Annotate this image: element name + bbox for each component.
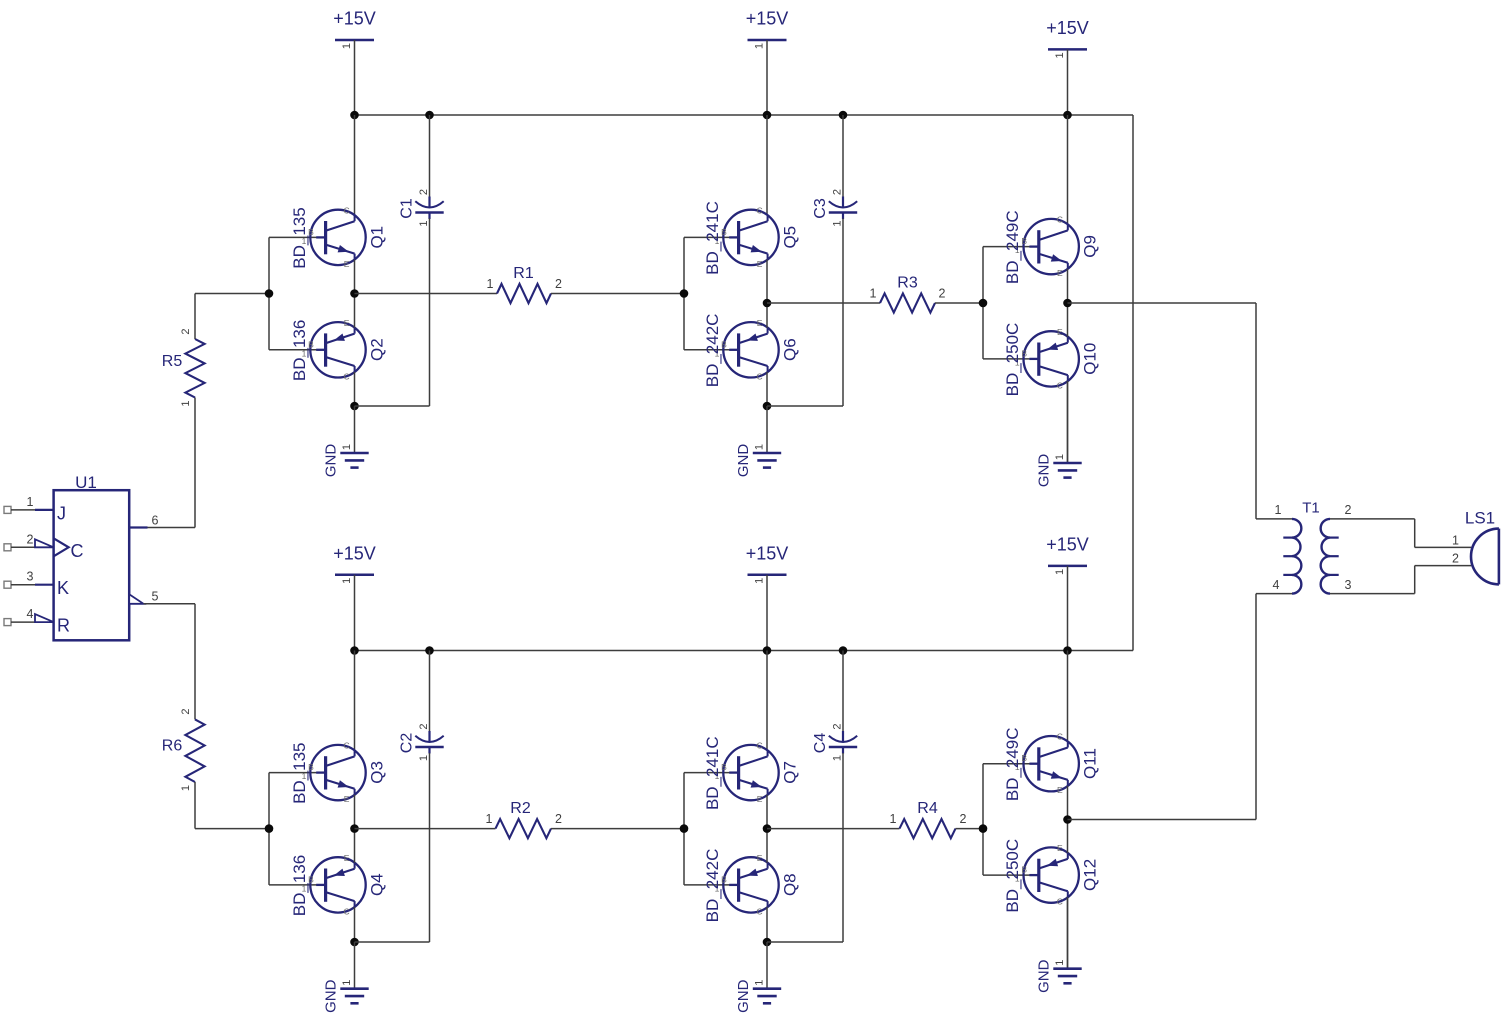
junction top rail stage1 <box>350 111 359 120</box>
wire stage2-bottom output to R4 <box>767 828 900 830</box>
wire emitter column stage3-bottom <box>1067 786 1069 897</box>
svg-text:2: 2 <box>832 723 844 729</box>
wire lower node to C1 <box>355 405 430 407</box>
svg-text:1: 1 <box>341 578 353 584</box>
svg-text:C: C <box>1057 215 1063 225</box>
svg-text:Q12: Q12 <box>1081 859 1100 891</box>
transistor Q10 <box>1003 323 1099 397</box>
wire Q10 collector to ground <box>1067 381 1069 463</box>
wire +15V bottom rail <box>355 650 1134 652</box>
transistor Q3 <box>290 741 387 805</box>
svg-text:Q1: Q1 <box>368 226 387 249</box>
svg-text:C: C <box>757 906 763 916</box>
svg-text:Q2: Q2 <box>368 338 387 361</box>
svg-text:Q4: Q4 <box>368 873 387 896</box>
svg-text:2: 2 <box>180 328 192 334</box>
power +15V stage1 bottom <box>333 543 376 650</box>
svg-text:1: 1 <box>27 495 34 509</box>
svg-text:BD_250C: BD_250C <box>1003 323 1022 397</box>
wire +15V to Q5 collector <box>766 115 768 215</box>
node output junction stage3-bottom <box>1063 815 1072 824</box>
svg-text:2: 2 <box>555 277 562 291</box>
svg-text:B: B <box>1021 753 1027 763</box>
svg-text:BD_249C: BD_249C <box>1003 727 1022 801</box>
svg-text:LS1: LS1 <box>1465 509 1495 528</box>
ground GND stage3 top <box>1036 381 1082 487</box>
svg-text:B: B <box>721 874 727 884</box>
svg-text:2: 2 <box>1345 503 1352 517</box>
svg-text:C: C <box>757 741 763 751</box>
svg-text:E: E <box>757 853 763 863</box>
svg-text:1: 1 <box>341 980 353 986</box>
svg-text:B: B <box>1021 236 1027 246</box>
svg-text:C: C <box>344 741 350 751</box>
wire T1 pin1 lead <box>1256 518 1292 520</box>
svg-text:C1: C1 <box>399 198 416 219</box>
svg-text:C2: C2 <box>399 733 416 754</box>
wire T1 pin4 lead <box>1256 593 1292 595</box>
svg-text:2: 2 <box>1452 552 1459 566</box>
wire stage3 output to T1 primary pin1 <box>1068 303 1257 519</box>
svg-text:E: E <box>757 259 763 269</box>
svg-text:2: 2 <box>418 723 430 729</box>
power +15V stage1 top <box>333 9 376 116</box>
svg-text:3: 3 <box>1345 578 1352 592</box>
svg-text:C3: C3 <box>812 198 829 219</box>
capacitor C2 <box>399 651 444 943</box>
wire emitter column stage1-top <box>354 260 356 372</box>
wire Q6 collector to lower node <box>766 372 768 406</box>
svg-text:Q5: Q5 <box>781 226 800 249</box>
svg-text:Q11: Q11 <box>1081 748 1100 779</box>
svg-text:R6: R6 <box>162 738 183 755</box>
power +15V stage3 bottom <box>1046 534 1089 650</box>
svg-text:1: 1 <box>486 812 493 826</box>
node output junction stage1-bottom <box>350 824 359 833</box>
resistor R4 <box>890 800 967 838</box>
svg-text:2: 2 <box>418 189 430 195</box>
node lower junction stage1-top <box>350 402 359 411</box>
wire +15V to Q11 collector <box>1067 651 1069 742</box>
svg-text:1: 1 <box>341 444 353 450</box>
svg-text:+15V: +15V <box>1046 18 1089 38</box>
node lower junction stage2-top <box>763 402 772 411</box>
node output junction stage2-bottom <box>763 824 772 833</box>
wire stage1 output to R1 <box>355 293 498 295</box>
wire stage2 output to R3 <box>767 302 880 304</box>
svg-text:C4: C4 <box>812 733 829 754</box>
svg-text:+15V: +15V <box>333 9 376 29</box>
svg-text:+15V: +15V <box>746 9 789 29</box>
wire emitter column stage1-bottom <box>354 795 356 907</box>
svg-text:BD_249C: BD_249C <box>1003 210 1022 284</box>
wire lower node to C4 <box>767 941 843 943</box>
svg-text:U1: U1 <box>75 473 97 492</box>
transformer T1 <box>1273 500 1352 594</box>
svg-text:E: E <box>1057 327 1063 337</box>
svg-text:+15V: +15V <box>333 543 376 563</box>
svg-text:1: 1 <box>832 220 844 226</box>
svg-text:2: 2 <box>27 532 34 546</box>
ground GND stage3 bottom <box>1036 897 1082 993</box>
wire T1 pin2 to LS1 pin1 <box>1330 519 1471 548</box>
svg-text:1: 1 <box>1275 503 1282 517</box>
svg-text:E: E <box>1057 268 1063 278</box>
svg-text:GND: GND <box>323 444 340 478</box>
transistor Q8 <box>703 849 800 923</box>
svg-text:C: C <box>1057 380 1063 390</box>
svg-text:B: B <box>308 227 314 237</box>
wire U1 pin 5 to R6 <box>144 604 196 720</box>
wire Q12 collector to ground <box>1067 897 1069 968</box>
node output junction stage2-top <box>763 299 772 308</box>
transistor Q5 <box>703 201 800 275</box>
capacitor C3 <box>812 115 857 406</box>
svg-text:2: 2 <box>939 286 946 300</box>
svg-text:4: 4 <box>27 607 34 621</box>
junction bottom rail stage2 <box>763 646 772 655</box>
svg-text:R1: R1 <box>513 265 534 282</box>
svg-text:GND: GND <box>1036 454 1053 488</box>
svg-text:1: 1 <box>180 400 192 406</box>
wire base link stage2-top <box>684 237 739 349</box>
transistor Q1 <box>290 205 387 269</box>
wire base link stage1-bottom <box>269 773 326 885</box>
svg-text:C: C <box>1057 897 1063 907</box>
ground GND stage1 top <box>323 406 369 477</box>
svg-text:R: R <box>57 616 70 636</box>
svg-text:1: 1 <box>754 578 766 584</box>
wire rail link right <box>1132 115 1134 651</box>
transistor Q2 <box>290 318 387 382</box>
svg-text:E: E <box>757 318 763 328</box>
svg-text:E: E <box>1057 785 1063 795</box>
svg-text:1: 1 <box>418 220 430 226</box>
svg-text:Q7: Q7 <box>781 761 800 784</box>
svg-text:1: 1 <box>487 277 494 291</box>
svg-text:Q6: Q6 <box>781 338 800 361</box>
capacitor C1 <box>399 115 444 406</box>
svg-text:+15V: +15V <box>1046 534 1089 554</box>
svg-text:R5: R5 <box>162 353 183 370</box>
svg-text:2: 2 <box>555 812 562 826</box>
svg-text:2: 2 <box>960 812 967 826</box>
svg-text:R2: R2 <box>510 800 531 817</box>
svg-text:1: 1 <box>754 980 766 986</box>
ground GND stage1 bottom <box>323 942 369 1013</box>
wire emitter column stage3-top <box>1067 269 1069 381</box>
resistor R6 <box>162 708 205 791</box>
svg-text:E: E <box>1057 843 1063 853</box>
svg-text:E: E <box>757 794 763 804</box>
wire lower node to C3 <box>767 405 843 407</box>
svg-text:K: K <box>57 578 69 598</box>
svg-text:R3: R3 <box>897 274 918 291</box>
node output junction stage3-top <box>1063 299 1072 308</box>
svg-text:BD_250C: BD_250C <box>1003 839 1022 913</box>
svg-text:C: C <box>344 205 350 215</box>
svg-text:E: E <box>344 318 350 328</box>
svg-text:C: C <box>757 205 763 215</box>
IC U1 JK flip-flop (pins 1 J, 2 C, 3 K, 4 R, outputs 6 and 5) <box>4 473 159 640</box>
wire base link stage3-bottom <box>983 764 1039 875</box>
node base junction stage1-bottom <box>265 824 274 833</box>
resistor R2 <box>486 800 563 838</box>
wire T1 pin3 to LS1 pin2 <box>1330 566 1471 594</box>
svg-text:1: 1 <box>832 755 844 761</box>
wire Q2 collector to lower node <box>354 372 356 406</box>
svg-text:BD_241C: BD_241C <box>703 736 722 810</box>
svg-text:+15V: +15V <box>746 543 789 563</box>
speaker LS1 <box>1452 509 1499 585</box>
svg-text:C: C <box>757 371 763 381</box>
svg-text:B: B <box>721 227 727 237</box>
junction bottom rail C4 <box>839 646 848 655</box>
svg-text:1: 1 <box>754 444 766 450</box>
svg-text:B: B <box>721 339 727 349</box>
ground GND stage2 top <box>735 406 781 477</box>
wire +15V to Q9 collector <box>1067 115 1069 224</box>
svg-text:1: 1 <box>1054 52 1066 58</box>
wire Q8 collector to lower node <box>766 907 768 942</box>
wire emitter column stage2-top <box>766 260 768 372</box>
capacitor C4 <box>812 651 857 943</box>
svg-text:GND: GND <box>735 444 752 478</box>
node lower junction stage1-bottom <box>350 938 359 947</box>
junction top rail C3 <box>839 111 848 120</box>
wire +15V to Q3 collector <box>354 651 356 751</box>
svg-text:6: 6 <box>152 514 159 528</box>
svg-text:1: 1 <box>870 286 877 300</box>
svg-text:1: 1 <box>1054 454 1066 460</box>
svg-text:1: 1 <box>180 785 192 791</box>
node lower junction stage2-bottom <box>763 938 772 947</box>
wire R6 to stage1-bottom base node <box>195 782 269 829</box>
wire base link stage1-top <box>269 237 326 349</box>
svg-text:B: B <box>1021 348 1027 358</box>
wire stage3-bottom output to T1 primary pin4 <box>1068 594 1257 820</box>
power +15V stage3 top <box>1046 18 1089 115</box>
svg-text:C: C <box>344 371 350 381</box>
svg-text:Q10: Q10 <box>1081 343 1100 375</box>
svg-text:B: B <box>1021 865 1027 875</box>
wire stage1-bottom output to R2 <box>355 828 496 830</box>
transistor Q11 <box>1003 727 1099 801</box>
svg-text:BD_242C: BD_242C <box>703 849 722 923</box>
power +15V stage2 top <box>746 9 789 116</box>
svg-text:BD_242C: BD_242C <box>703 314 722 388</box>
node output junction stage1-top <box>350 289 359 298</box>
svg-text:J: J <box>57 503 66 523</box>
svg-text:BD_135: BD_135 <box>290 742 309 803</box>
node base junction stage3-top <box>979 299 988 308</box>
wire R3 to stage3 base node <box>935 302 983 304</box>
svg-text:E: E <box>344 259 350 269</box>
svg-text:Q8: Q8 <box>781 873 800 896</box>
wire +15V top rail <box>355 114 1134 116</box>
svg-text:1: 1 <box>341 43 353 49</box>
svg-text:2: 2 <box>832 189 844 195</box>
power +15V stage2 bottom <box>746 543 789 650</box>
junction bottom rail stage1 <box>350 646 359 655</box>
ground GND stage2 bottom <box>735 942 781 1013</box>
svg-text:1: 1 <box>1054 569 1066 575</box>
node base junction stage3-bottom <box>979 824 988 833</box>
svg-text:4: 4 <box>1273 578 1280 592</box>
svg-text:1: 1 <box>754 43 766 49</box>
resistor R3 <box>870 274 946 312</box>
svg-text:C: C <box>1057 732 1063 742</box>
wire Q4 collector to lower node <box>354 907 356 942</box>
junction bottom rail stage3 <box>1063 646 1072 655</box>
transistor Q4 <box>290 853 387 917</box>
svg-text:BD_136: BD_136 <box>290 855 309 916</box>
wire +15V to Q7 collector <box>766 651 768 751</box>
wire emitter column stage2-bottom <box>766 795 768 907</box>
resistor R1 <box>487 265 563 303</box>
node base junction stage2-top <box>680 289 689 298</box>
svg-text:Q9: Q9 <box>1081 235 1100 258</box>
svg-text:R4: R4 <box>917 800 938 817</box>
junction top rail stage3 <box>1063 111 1072 120</box>
wire R2 to stage2-bottom base node <box>551 828 684 830</box>
svg-text:1: 1 <box>1054 960 1066 966</box>
transistor Q12 <box>1003 839 1099 913</box>
transistor Q7 <box>703 736 800 810</box>
svg-text:Q3: Q3 <box>368 761 387 784</box>
svg-text:E: E <box>344 794 350 804</box>
wire R5 to stage1 base node <box>195 294 269 340</box>
svg-text:GND: GND <box>323 979 340 1013</box>
svg-text:BD_135: BD_135 <box>290 207 309 268</box>
wire base link stage2-bottom <box>684 773 739 885</box>
svg-text:C: C <box>344 906 350 916</box>
wire R4 to stage3-bottom base node <box>956 828 984 830</box>
svg-text:GND: GND <box>1036 959 1053 993</box>
svg-text:1: 1 <box>1452 533 1459 547</box>
transistor Q9 <box>1003 210 1099 284</box>
svg-text:E: E <box>344 853 350 863</box>
svg-text:1: 1 <box>890 812 897 826</box>
transistor Q6 <box>703 314 800 388</box>
svg-text:B: B <box>308 339 314 349</box>
svg-text:BD_136: BD_136 <box>290 320 309 381</box>
svg-text:B: B <box>308 874 314 884</box>
node base junction stage2-bottom <box>680 824 689 833</box>
svg-text:GND: GND <box>735 979 752 1013</box>
svg-text:2: 2 <box>180 708 192 714</box>
wire R1 to stage2 base node <box>551 293 684 295</box>
svg-text:BD_241C: BD_241C <box>703 201 722 275</box>
node base junction stage1-top <box>265 289 274 298</box>
wire U1 pin 6 to R5 <box>148 398 196 528</box>
junction top rail C1 <box>425 111 434 120</box>
svg-text:B: B <box>308 762 314 772</box>
svg-text:T1: T1 <box>1302 500 1320 517</box>
svg-text:3: 3 <box>27 570 34 584</box>
wire base link stage3-top <box>983 247 1039 359</box>
wire +15V to Q1 collector <box>354 115 356 215</box>
svg-text:B: B <box>721 762 727 772</box>
wire lower node to C2 <box>355 941 430 943</box>
svg-text:C: C <box>71 541 84 561</box>
junction bottom rail C2 <box>425 646 434 655</box>
svg-text:1: 1 <box>418 755 430 761</box>
resistor R5 <box>162 328 205 406</box>
junction top rail stage2 <box>763 111 772 120</box>
svg-text:5: 5 <box>152 589 159 603</box>
